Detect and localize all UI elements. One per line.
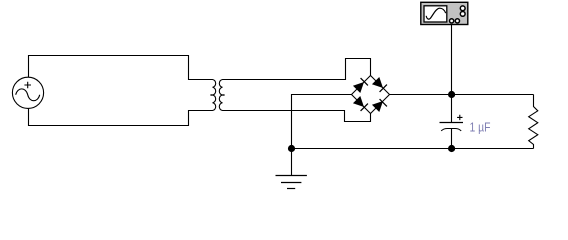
oscilloscope U1 knob upper xyxy=(460,6,465,11)
wire secondary top to bridge top vertex xyxy=(226,59,371,80)
oscilloscope U1 screen sine trace xyxy=(426,8,446,19)
oscilloscope U1 connector B xyxy=(455,19,459,23)
wire bottom-left from source bottom to transformer primary bottom xyxy=(29,109,210,126)
wire top-left from source top to transformer primary top xyxy=(29,56,210,80)
resistor R1 zigzag xyxy=(529,95,538,149)
AC source V1 sine symbol xyxy=(16,89,40,101)
diode D1 top-left (pointing to top vertex) xyxy=(354,78,368,92)
oscilloscope U1 screen xyxy=(424,6,447,22)
transformer T1 primary mid tick xyxy=(210,94,212,96)
wire bridge left vertex to ground node xyxy=(292,95,352,149)
node junction dot at scope/cap rail xyxy=(448,91,455,98)
capacitor C1 bottom curved plate xyxy=(441,129,461,131)
wire capacitor branch lower xyxy=(451,129,453,149)
transformer T1 secondary mid tick xyxy=(223,94,225,96)
transformer T1 primary winding (left, bumps facing right) xyxy=(209,80,216,111)
oscilloscope U1 body xyxy=(421,2,468,24)
diode D4 bottom-right (pointing to right vertex) xyxy=(373,99,387,111)
oscilloscope U1 connector A xyxy=(450,19,454,23)
wire bridge right vertex to resistor (DC+ rail) xyxy=(390,94,534,96)
capacitor C1 plus sign xyxy=(457,115,462,120)
diode D2 top-right (pointing to right vertex) xyxy=(373,78,387,92)
wire bottom rail ground to resistor bottom xyxy=(292,148,534,150)
wire secondary bottom to bridge bottom vertex xyxy=(226,111,371,122)
AC source V1 circle xyxy=(12,77,43,108)
node junction dot at cap bottom rail xyxy=(448,145,455,152)
oscilloscope U1 knob lower xyxy=(460,12,465,17)
wire capacitor branch upper xyxy=(451,95,453,123)
svg-text:1 µF: 1 µF xyxy=(470,119,491,134)
ground symbol xyxy=(276,149,307,189)
AC source V1 plus sign xyxy=(24,82,31,89)
wire oscilloscope probe down to DC+ rail xyxy=(451,25,453,95)
node junction dot at ground rail xyxy=(288,145,295,152)
capacitor C1 top plate xyxy=(440,122,464,124)
bridge rectifier diamond outline xyxy=(352,76,390,114)
diode D3 bottom-left (pointing to bottom vertex) xyxy=(354,97,368,111)
transformer T1 secondary winding (right, bumps facing left) xyxy=(219,80,226,111)
